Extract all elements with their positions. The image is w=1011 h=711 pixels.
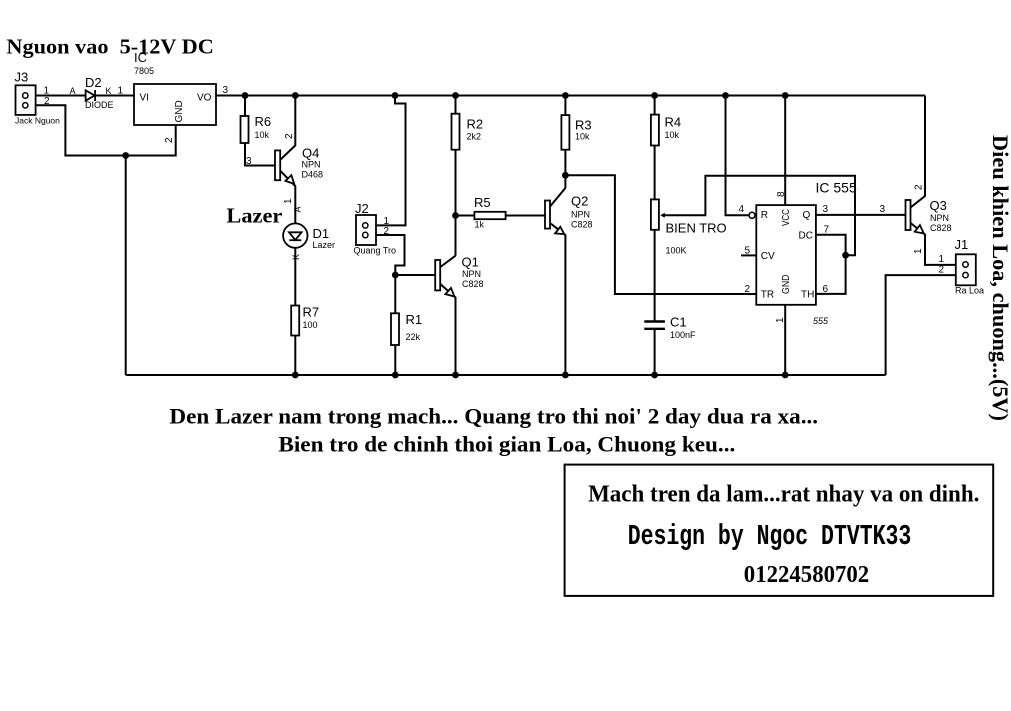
wire J3 pin2 to 7805 GND [36, 105, 176, 155]
junction dot rail R4 [651, 92, 658, 99]
svg-text:2: 2 [284, 133, 295, 139]
wire R4 top [654, 96, 656, 115]
wire C1 to bottom rail [654, 329, 656, 375]
wire R3 bottom to Q2 collector [564, 150, 566, 188]
svg-text:D1: D1 [313, 226, 330, 241]
junction dot rail Q1 [452, 372, 459, 379]
svg-text:Q1: Q1 [462, 255, 479, 270]
wire potentiometer wiper to DC node [665, 176, 855, 256]
svg-text:NPN: NPN [302, 160, 321, 170]
svg-text:R6: R6 [255, 114, 272, 129]
svg-text:Lazer: Lazer [226, 204, 282, 228]
junction dot R5 node [452, 212, 459, 219]
svg-text:J3: J3 [15, 70, 29, 85]
svg-text:Jack Nguon: Jack Nguon [15, 116, 60, 126]
svg-text:R5: R5 [474, 195, 491, 210]
svg-text:Lazer: Lazer [313, 240, 336, 250]
resistor R5 [474, 212, 505, 219]
wire Q4 collector [280, 96, 295, 160]
diode D2 [86, 90, 95, 100]
svg-text:Design by Ngoc DTVTK33: Design by Ngoc DTVTK33 [628, 520, 912, 553]
wire top rail to J2 pin1 [376, 96, 406, 226]
timer U-555 [756, 205, 816, 305]
svg-text:VCC: VCC [781, 209, 792, 226]
svg-text:D2: D2 [85, 75, 102, 90]
wire R6 bottom to Q4 base [245, 143, 275, 166]
resistor R6 [241, 116, 249, 143]
svg-text:GND: GND [781, 275, 792, 295]
resistor R1 [391, 313, 399, 345]
resistor R2 [452, 114, 460, 150]
svg-text:K: K [291, 254, 301, 260]
junction dot rail R2 [452, 92, 459, 99]
svg-text:DC: DC [799, 231, 813, 242]
svg-text:1: 1 [118, 86, 124, 97]
junction dot DC-TH node [842, 252, 849, 259]
wire R7 to bottom rail [294, 336, 296, 375]
info box [565, 465, 994, 596]
junction dot rail Q4 [292, 92, 299, 99]
svg-text:555: 555 [813, 316, 829, 326]
svg-text:10k: 10k [255, 130, 270, 140]
transistor Q2 [545, 201, 550, 229]
junction dot rail pin8 [782, 92, 789, 99]
svg-text:10k: 10k [575, 132, 590, 142]
svg-text:GND: GND [174, 100, 185, 122]
LED D1 [283, 223, 307, 247]
svg-text:3: 3 [880, 204, 886, 215]
svg-text:2: 2 [939, 265, 945, 276]
svg-text:NPN: NPN [462, 269, 481, 279]
svg-text:1: 1 [775, 317, 786, 323]
svg-text:01224580702: 01224580702 [744, 562, 869, 588]
svg-text:R4: R4 [665, 115, 682, 130]
svg-text:6: 6 [823, 284, 829, 295]
svg-text:Bien tro de chinh thoi gian Lo: Bien tro de chinh thoi gian Loa, Chuong … [278, 432, 735, 457]
svg-text:1: 1 [283, 198, 294, 204]
svg-text:IC 555: IC 555 [816, 180, 857, 196]
connector J1 [956, 254, 976, 285]
wire J2 pin2 to node A [376, 235, 405, 275]
wire 555 CV pin 5 stub [741, 254, 756, 256]
junction dot rail R3 [562, 92, 569, 99]
wire J3 pin1 to D2 anode [36, 95, 86, 97]
svg-text:100K: 100K [666, 246, 687, 256]
svg-text:BIEN TRO: BIEN TRO [666, 221, 727, 236]
svg-text:1: 1 [44, 86, 50, 97]
svg-text:R2: R2 [467, 117, 484, 132]
svg-text:Q3: Q3 [930, 198, 947, 213]
svg-text:D468: D468 [302, 170, 324, 180]
resistor R3 [561, 115, 569, 150]
svg-text:R: R [761, 210, 768, 221]
connector J2 [356, 215, 376, 245]
svg-text:Q: Q [803, 210, 811, 221]
connector J3 [16, 85, 36, 115]
svg-text:10k: 10k [665, 130, 680, 140]
resistor R4 [651, 115, 659, 146]
junction dot rail 555 GND [782, 372, 789, 379]
junction dot Q2 collector [562, 172, 569, 179]
junction dot node A [392, 272, 399, 279]
wire 555 reset pin 4 [726, 96, 750, 216]
svg-text:2: 2 [384, 226, 390, 237]
svg-text:8: 8 [776, 191, 787, 197]
svg-text:C1: C1 [670, 315, 687, 330]
svg-text:VO: VO [197, 93, 212, 104]
svg-text:100nF: 100nF [670, 330, 696, 340]
wire Q3 collector [911, 96, 926, 208]
wire Q1 emitter to bottom rail [440, 284, 456, 376]
svg-text:IC: IC [134, 50, 147, 65]
junction dot rail R6 [242, 92, 249, 99]
svg-text:2: 2 [745, 284, 751, 295]
wire 555 DC pin 7 loop to TH pin 6 [816, 235, 846, 294]
svg-text:22k: 22k [406, 332, 421, 342]
svg-text:C828: C828 [930, 223, 952, 233]
wire J1 pin2 to bottom rail [886, 275, 956, 375]
svg-text:NPN: NPN [571, 210, 590, 220]
svg-text:A: A [293, 206, 303, 212]
capacitor C1 [644, 320, 665, 322]
svg-text:3: 3 [246, 156, 252, 167]
wire 555 VCC pin 8 [784, 96, 786, 206]
svg-text:R7: R7 [303, 305, 320, 320]
wire Q2 emitter to bottom rail [550, 223, 565, 375]
svg-text:Mach tren da lam...rat nhay va: Mach tren da lam...rat nhay va on dinh. [588, 482, 979, 508]
wire Q2 collector to 555 TR [565, 175, 756, 294]
wire D1 to R7 [294, 240, 296, 305]
svg-text:TR: TR [761, 290, 774, 301]
wire left vertical to bottom rail [125, 156, 127, 376]
svg-text:3: 3 [823, 204, 829, 215]
svg-text:R3: R3 [575, 118, 592, 133]
svg-text:2: 2 [164, 137, 175, 143]
wire R2 bottom to Q1 collector [455, 150, 457, 256]
svg-text:Dieu khien Loa, chuong...(5V): Dieu khien Loa, chuong...(5V) [988, 135, 1011, 421]
transistor Q1 [435, 260, 440, 290]
svg-text:J1: J1 [955, 237, 969, 252]
wire R5 left [456, 215, 475, 217]
junction dot rail J2 [392, 92, 399, 99]
potentiometer BIEN TRO [651, 199, 659, 229]
wire R6 top [244, 96, 246, 117]
junction dot rail pin4 [722, 92, 729, 99]
svg-text:1: 1 [913, 248, 924, 254]
svg-text:C828: C828 [571, 220, 593, 230]
junction dot rail R7 [292, 372, 299, 379]
svg-text:DIODE: DIODE [85, 100, 114, 110]
svg-text:Ra Loa: Ra Loa [955, 286, 984, 296]
svg-text:7: 7 [824, 225, 830, 236]
svg-text:Nguon vao 5-12V DC: Nguon vao 5-12V DC [6, 35, 213, 59]
wire 555 GND pin 1 to bottom rail [784, 305, 786, 375]
svg-text:VI: VI [140, 93, 149, 104]
wire R3 top [564, 96, 566, 116]
wire 555 Q pin 3 to Q3 base [816, 214, 906, 216]
svg-text:5: 5 [745, 246, 751, 257]
wire R2 top [455, 96, 457, 114]
svg-text:Den Lazer nam trong mach... Qu: Den Lazer nam trong mach... Quang tro th… [169, 404, 818, 429]
transistor Q3 [906, 200, 911, 230]
wire Q1 collector diagonal [440, 256, 456, 268]
svg-text:Q4: Q4 [302, 146, 319, 161]
wire node A to R1 [394, 275, 396, 313]
svg-text:2: 2 [44, 96, 50, 107]
wire Q4 emitter to D1 [280, 171, 295, 232]
wire Q3 emitter to J1 pin1 [911, 223, 956, 265]
junction dot rail C1 [651, 372, 658, 379]
svg-text:TH: TH [801, 290, 814, 301]
wire R4 bottom to potentiometer [654, 146, 656, 200]
transistor Q4 [275, 150, 280, 180]
wire node A to Q1 base [395, 274, 435, 276]
junction dot GND node [122, 152, 129, 159]
svg-text:J2: J2 [355, 201, 369, 216]
wire R1 to bottom rail [394, 345, 396, 375]
wire Q2 collector diagonal [550, 188, 565, 207]
svg-text:4: 4 [739, 204, 745, 215]
svg-text:7805: 7805 [134, 66, 154, 76]
svg-text:1: 1 [939, 254, 945, 265]
svg-text:NPN: NPN [930, 213, 949, 223]
junction dot rail Q2 [562, 372, 569, 379]
svg-text:C828: C828 [462, 279, 484, 289]
svg-text:Quang Tro: Quang Tro [354, 246, 397, 256]
svg-text:1k: 1k [475, 220, 485, 230]
regulator U-7805 [134, 84, 216, 125]
resistor R7 [291, 306, 299, 336]
wire R5 right to Q2 base [506, 215, 545, 217]
svg-text:2k2: 2k2 [467, 132, 482, 142]
svg-text:Q2: Q2 [571, 194, 588, 209]
wire potentiometer bottom to C1 [654, 230, 656, 322]
wire D2 cathode to 7805 VI [95, 95, 134, 97]
svg-text:3: 3 [223, 85, 229, 96]
svg-text:A: A [70, 86, 76, 96]
svg-text:R1: R1 [406, 312, 423, 327]
svg-text:K: K [106, 86, 112, 96]
junction dot rail R1 [392, 372, 399, 379]
wire bottom rail [126, 374, 886, 376]
svg-text:CV: CV [761, 251, 775, 262]
wire top rail [216, 95, 925, 97]
svg-text:100: 100 [303, 320, 318, 330]
svg-text:2: 2 [914, 184, 925, 190]
